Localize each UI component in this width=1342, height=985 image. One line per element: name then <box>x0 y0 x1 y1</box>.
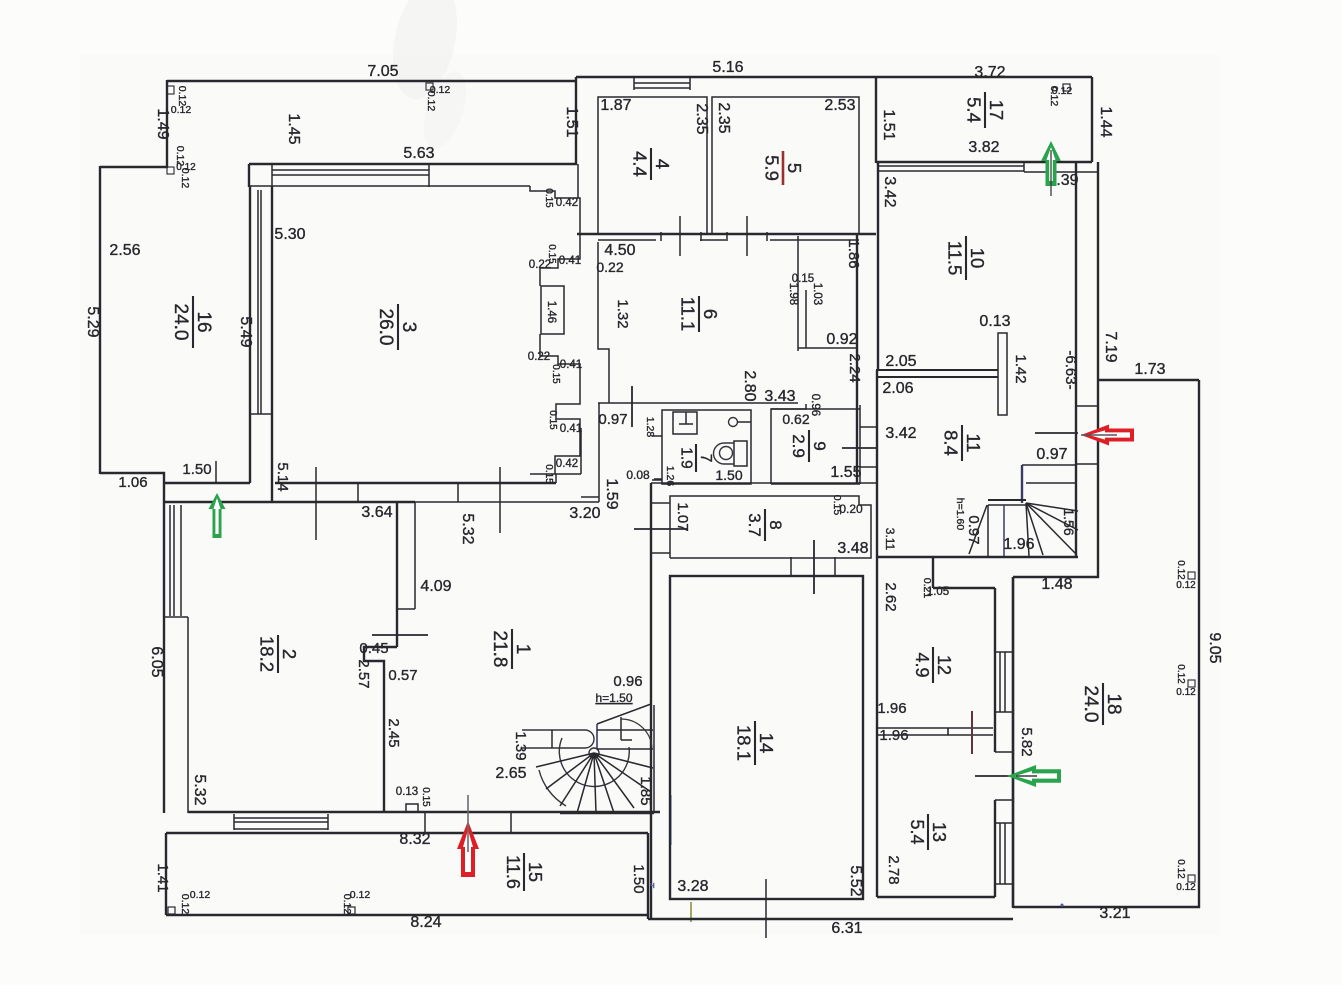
stair bar b <box>988 504 1026 506</box>
room label 3 <box>375 304 419 350</box>
svg-text:0.12: 0.12 <box>1175 664 1186 684</box>
svg-text:3.28: 3.28 <box>677 878 708 895</box>
stair tread 2 <box>1026 482 1076 484</box>
wall shaft inner x1076 <box>1075 162 1077 558</box>
door tick below room14 <box>765 879 767 938</box>
stair2 tread bottom <box>597 748 653 750</box>
svg-text:0.41: 0.41 <box>560 359 582 371</box>
stair2 inner arc <box>559 738 629 787</box>
window crossbar 2b <box>995 799 1013 801</box>
window jamb rooms45 r <box>689 77 691 90</box>
svg-text:5.4: 5.4 <box>907 819 927 844</box>
stair spoke 2 <box>1026 503 1043 555</box>
wall right of garage block x577 <box>575 77 577 165</box>
wall corridor bottom y483 <box>651 482 877 484</box>
wall top room18 area <box>1098 379 1199 381</box>
svg-text:0.22: 0.22 <box>596 259 623 275</box>
svg-text:0.12: 0.12 <box>1176 882 1196 893</box>
window crossbar 2a <box>995 751 1013 753</box>
wall rooms12/13 divider a <box>877 727 993 729</box>
shaft crossbar b <box>1076 463 1098 465</box>
svg-text:3.11: 3.11 <box>883 528 897 551</box>
room label 12 <box>912 647 954 683</box>
tick through green arrow rm <box>1016 775 1037 777</box>
sink tap b <box>679 423 693 425</box>
svg-text:1.42: 1.42 <box>1012 354 1029 383</box>
svg-text:0.22: 0.22 <box>528 351 550 363</box>
svg-text:5.4: 5.4 <box>963 97 984 123</box>
sink room7 <box>673 412 697 434</box>
svg-text:18.1: 18.1 <box>733 725 754 761</box>
svg-text:3.21: 3.21 <box>1099 905 1130 922</box>
svg-text:5.49: 5.49 <box>237 316 254 347</box>
wall right rooms1213 inner x995 upper <box>994 588 996 752</box>
svg-text:2.24: 2.24 <box>846 353 863 382</box>
corner square terrace mid <box>348 907 355 914</box>
window jamb room3 top left <box>271 164 273 187</box>
svg-text:9.05: 9.05 <box>1206 632 1223 663</box>
svg-text:1: 1 <box>512 644 533 655</box>
wall step to room1 top <box>530 473 581 475</box>
svg-text:21.8: 21.8 <box>489 631 510 668</box>
svg-text:17: 17 <box>986 100 1007 121</box>
svg-text:3.48: 3.48 <box>837 540 868 557</box>
corridor stub y479 <box>654 478 662 480</box>
window crossbar 3b <box>995 883 1013 885</box>
svg-text:2.56: 2.56 <box>109 242 140 259</box>
svg-text:5.32: 5.32 <box>459 513 476 544</box>
svg-text:1.98: 1.98 <box>787 283 799 305</box>
stair2 tread top <box>597 729 653 731</box>
room 5 walls <box>712 97 859 234</box>
wall connector y609 <box>397 608 415 610</box>
svg-text:0.12: 0.12 <box>171 104 192 116</box>
toilet bowl room7 <box>714 443 734 464</box>
svg-text:5: 5 <box>784 163 805 173</box>
svg-text:0.12: 0.12 <box>341 894 353 915</box>
svg-text:1.46: 1.46 <box>545 301 557 323</box>
window glazing rooms45 b <box>634 87 690 89</box>
wall bottom room9 <box>771 483 860 485</box>
svg-text:0.20: 0.20 <box>839 502 863 516</box>
svg-text:3.42: 3.42 <box>885 425 916 442</box>
wall connector x458 <box>457 483 459 502</box>
wall left room18 x1013 <box>1012 577 1014 908</box>
stair2 vertical <box>596 724 598 749</box>
room label 14 <box>733 721 777 765</box>
wall bottom rooms12 <box>188 811 660 813</box>
door stub room7 b <box>652 479 662 481</box>
chimney box room3 <box>541 286 564 334</box>
svg-text:0.12: 0.12 <box>176 162 196 173</box>
svg-text:0.13: 0.13 <box>396 786 418 798</box>
crossbar room9 a <box>860 426 877 428</box>
door tick room8 <box>813 540 815 594</box>
svg-text:0.08: 0.08 <box>626 468 650 482</box>
room 4 walls <box>598 97 707 234</box>
svg-text:0.12: 0.12 <box>179 894 191 915</box>
wall bottom room6 <box>598 402 798 404</box>
toilet tank room7 <box>734 441 747 466</box>
svg-text:9: 9 <box>810 441 829 450</box>
window glazing room10 top b <box>878 170 1024 172</box>
door tick rooms1213 <box>975 775 1016 777</box>
svg-text:5.82: 5.82 <box>1018 727 1035 756</box>
window room2 left c <box>180 505 182 616</box>
window glazing room3 top a <box>272 169 429 171</box>
window room2 bottom c <box>234 828 328 830</box>
stair spoke 4 <box>1026 503 1078 530</box>
door stub room7 a <box>652 435 662 437</box>
svg-text:5.32: 5.32 <box>191 774 208 805</box>
room label 10 <box>944 236 988 280</box>
door jamb rooms45 a <box>660 232 662 241</box>
svg-text:1.49: 1.49 <box>154 108 171 139</box>
svg-text:2.05: 2.05 <box>885 353 916 370</box>
svg-text:2.80: 2.80 <box>741 370 758 401</box>
svg-text:0.42: 0.42 <box>556 197 578 209</box>
wall terrace bottom <box>166 914 648 916</box>
svg-text:2.53: 2.53 <box>824 97 855 114</box>
corner sq re1 <box>1188 680 1195 687</box>
tick terrace b <box>510 812 512 833</box>
wall bottom rooms45 <box>577 233 876 235</box>
svg-text:h=1.60: h=1.60 <box>954 498 966 531</box>
wall inner room2 left x188 <box>187 617 189 813</box>
wall left upper x167 <box>166 80 168 168</box>
tick through red arrow b <box>467 795 469 852</box>
red arrow bottom <box>457 821 479 877</box>
stair2 landing pill <box>522 730 594 748</box>
wall top of room 3 <box>249 163 577 165</box>
wall room10/11 b <box>877 376 998 378</box>
room label 4 <box>629 148 673 180</box>
wall bottom rooms45 inner b <box>700 239 726 241</box>
wall left room11 x877 <box>876 370 878 557</box>
svg-text:10: 10 <box>967 248 988 269</box>
stair2 spoke 4 <box>577 753 594 813</box>
room label 6 <box>677 296 721 332</box>
wall bottom wing outer <box>648 918 1013 920</box>
stair2 spoke 3 <box>560 753 594 806</box>
svg-text:ч: ч <box>650 880 655 890</box>
door knob circle room7 <box>729 418 738 427</box>
svg-text:h=1.50: h=1.50 <box>595 691 632 705</box>
wall notched right of room3 upper <box>530 186 580 286</box>
svg-text:1.96: 1.96 <box>879 727 908 744</box>
door tick room4 <box>679 216 681 256</box>
window glazing room10 top a <box>878 165 1024 167</box>
wall inner top of room 3 <box>250 185 530 187</box>
room label 13 <box>907 814 949 850</box>
corridor crossbar y553 <box>651 552 670 554</box>
wall connector x358 <box>357 483 359 502</box>
door tick room13 <box>971 711 973 754</box>
svg-text:5.14: 5.14 <box>274 462 291 491</box>
room label 16 <box>170 296 214 348</box>
stair2 spoke 9 <box>594 753 653 768</box>
wall terrace left <box>165 833 167 915</box>
wall top of garage block <box>167 80 577 82</box>
svg-text:13: 13 <box>929 822 949 842</box>
window glazing room3 left b <box>260 190 262 414</box>
stair2 spoke 2 <box>546 753 594 789</box>
wall room10/11 a <box>876 369 998 371</box>
svg-text:0.15: 0.15 <box>420 787 431 807</box>
svg-text:2.35: 2.35 <box>715 102 732 133</box>
svg-text:12: 12 <box>934 655 954 675</box>
svg-text:3.64: 3.64 <box>361 504 392 521</box>
svg-text:1.56: 1.56 <box>1061 508 1077 535</box>
window room2 sill <box>164 616 188 618</box>
svg-text:18.2: 18.2 <box>256 636 277 672</box>
window rooms1213 glazing 3b <box>1004 823 1006 884</box>
svg-text:0.42: 0.42 <box>556 458 578 470</box>
svg-text:1.55: 1.55 <box>830 464 861 481</box>
window glazing room3 left a <box>257 190 259 414</box>
svg-text:1.9: 1.9 <box>677 447 694 469</box>
svg-text:1.39: 1.39 <box>512 731 529 760</box>
wall y502 room2 top <box>164 501 415 503</box>
svg-text:6.31: 6.31 <box>831 920 862 937</box>
svg-text:0.92: 0.92 <box>826 331 857 348</box>
stair spoke 3 <box>1026 503 1076 554</box>
window room2 left a <box>169 505 171 616</box>
corner sq t mid <box>426 83 433 90</box>
svg-text:1.73: 1.73 <box>1134 361 1165 378</box>
window room2 left b <box>173 505 175 616</box>
svg-text:24.0: 24.0 <box>170 304 191 341</box>
window crossbar 1b <box>995 711 1013 713</box>
svg-text:16: 16 <box>193 311 214 332</box>
svg-text:0.41: 0.41 <box>559 255 581 267</box>
svg-text:4.4: 4.4 <box>629 151 650 177</box>
room label 11 <box>940 425 984 461</box>
svg-text:6: 6 <box>700 309 721 319</box>
stair rail mid <box>1003 505 1005 556</box>
svg-text:11.5: 11.5 <box>944 241 965 276</box>
wall left outer x100 <box>99 166 101 474</box>
room label 7 <box>677 444 714 472</box>
svg-text:1.50: 1.50 <box>182 461 211 478</box>
svg-text:2.45: 2.45 <box>385 718 402 747</box>
window jamb room3 top right <box>428 164 430 187</box>
svg-text:24.0: 24.0 <box>1080 686 1101 723</box>
shaft crossbar a <box>1076 405 1098 407</box>
svg-text:1.51: 1.51 <box>563 106 580 137</box>
stair2 spoke 1 <box>536 753 594 767</box>
wall left room10 <box>877 162 879 371</box>
svg-text:1.03: 1.03 <box>811 283 823 305</box>
wall bottom of room 16 <box>100 472 165 474</box>
wall bottom rooms45 inner c <box>770 239 859 241</box>
room label 2 <box>256 635 300 673</box>
svg-text:1.50: 1.50 <box>715 467 742 483</box>
notch bottom wall <box>406 804 418 812</box>
stair2 spoke 8 <box>594 753 651 792</box>
svg-text:1.51: 1.51 <box>880 109 897 140</box>
tick yellow below room14 <box>690 902 692 922</box>
svg-text:0.15: 0.15 <box>543 188 554 208</box>
svg-text:1.86: 1.86 <box>845 239 862 268</box>
wall terrace top <box>166 832 648 834</box>
blue artifact b <box>1061 904 1064 907</box>
window jamb room10 top <box>1023 162 1025 172</box>
wall left of room 2 <box>163 472 165 813</box>
wall step x556 <box>555 474 557 483</box>
wall top room12 <box>933 587 995 589</box>
wall corner x578 <box>577 164 579 198</box>
door jamb room8 a <box>790 557 792 577</box>
svg-text:4.50: 4.50 <box>604 242 635 259</box>
svg-text:5.9: 5.9 <box>761 155 782 181</box>
svg-text:11.1: 11.1 <box>677 297 698 332</box>
wall x599 corridor <box>598 403 600 502</box>
corner square room17 <box>1063 84 1070 91</box>
wall right rooms1213 outer x1013 <box>1012 577 1014 907</box>
svg-text:0.97: 0.97 <box>1036 446 1067 463</box>
window glazing room3 top b <box>272 174 429 176</box>
wall right room17 <box>1091 77 1093 162</box>
stair2 spoke 6 <box>594 753 614 813</box>
window room2 bottom jamb r <box>327 814 329 830</box>
svg-text:5.63: 5.63 <box>403 145 434 162</box>
wall bottom room13 <box>877 896 995 898</box>
wall left rooms1213 x877 <box>876 557 878 897</box>
wall step room12 x933 <box>932 557 934 588</box>
sink tap a <box>685 412 687 424</box>
svg-text:0.12: 0.12 <box>1176 580 1196 591</box>
tick through green arrow tr <box>1050 150 1052 196</box>
svg-text:3.82: 3.82 <box>968 139 999 156</box>
svg-text:5.29: 5.29 <box>84 306 101 337</box>
wall top room17 <box>876 76 1092 78</box>
svg-text:1.28: 1.28 <box>644 417 656 438</box>
stair spoke 5 <box>1026 503 1078 511</box>
wall y483 main <box>275 482 556 484</box>
wall room3 left outer x250 <box>249 186 251 483</box>
room label 8 <box>745 509 785 541</box>
svg-text:1.45: 1.45 <box>285 113 302 144</box>
window rooms1213 glazing 3a <box>999 823 1001 884</box>
crossbar room9 b <box>860 466 877 468</box>
room 14 walls <box>670 576 863 899</box>
svg-text:0.12: 0.12 <box>1175 859 1186 879</box>
svg-text:-6.63-: -6.63- <box>1062 350 1079 389</box>
stair spoke 1 <box>1026 503 1029 556</box>
svg-text:2.62: 2.62 <box>882 582 899 611</box>
corner square terrace left <box>168 907 175 914</box>
window rooms1213 glazing 1b <box>1004 652 1006 712</box>
svg-text:0.15: 0.15 <box>543 464 554 484</box>
svg-text:4: 4 <box>652 159 673 169</box>
stair cut diagonal <box>969 505 987 554</box>
green arrow left <box>209 493 226 538</box>
stair2 bottom <box>560 812 654 814</box>
svg-text:0.12: 0.12 <box>1176 687 1196 698</box>
wall notched right of room3 lower <box>540 334 580 474</box>
wall right rooms45 x876 <box>875 77 877 163</box>
svg-text:11.6: 11.6 <box>503 855 523 889</box>
svg-text:8.4: 8.4 <box>940 430 961 456</box>
svg-text:7.19: 7.19 <box>1102 331 1119 362</box>
svg-text:7.05: 7.05 <box>367 63 398 80</box>
svg-text:2.9: 2.9 <box>789 434 808 458</box>
wall stub room6 x806 <box>805 290 807 348</box>
svg-text:1.48: 1.48 <box>1041 576 1072 593</box>
svg-text:3.72: 3.72 <box>974 64 1005 81</box>
svg-text:6.05: 6.05 <box>148 646 165 677</box>
svg-text:0.96: 0.96 <box>613 673 642 690</box>
svg-text:2.65: 2.65 <box>495 765 526 782</box>
svg-text:8.32: 8.32 <box>399 831 430 848</box>
svg-text:1.06: 1.06 <box>118 474 147 491</box>
room label 9 <box>789 430 829 462</box>
door tick room9 <box>842 447 877 449</box>
wall room2 right x397 <box>396 502 398 647</box>
svg-text:5.30: 5.30 <box>274 226 305 243</box>
svg-text:8: 8 <box>766 520 785 529</box>
svg-text:14: 14 <box>756 733 777 754</box>
svg-text:1.05: 1.05 <box>927 586 949 598</box>
red arrow right <box>1081 425 1134 446</box>
scan smudge <box>383 0 467 105</box>
svg-text:0.12: 0.12 <box>1048 86 1060 107</box>
svg-text:0.15: 0.15 <box>550 364 561 384</box>
svg-text:15: 15 <box>525 862 545 882</box>
window glazing rooms45 a <box>634 82 690 84</box>
stair2 door arc <box>621 719 652 748</box>
svg-text:0.97: 0.97 <box>965 515 982 544</box>
window jamb rooms45 l <box>633 77 635 90</box>
corner sq re2 <box>1188 875 1195 882</box>
wall shaft outer x1098 <box>1097 162 1099 578</box>
green arrow top right <box>1041 141 1061 186</box>
svg-text:8.24: 8.24 <box>410 914 441 931</box>
wall nook room6 <box>798 347 857 349</box>
stair rail left <box>987 505 989 557</box>
svg-text:0.12: 0.12 <box>190 889 211 901</box>
svg-text:7: 7 <box>697 454 714 463</box>
window room2 bottom jamb l <box>233 814 235 830</box>
tick terrace a <box>424 812 426 833</box>
wall top of room 16 <box>100 166 168 168</box>
stair2 diagonal <box>597 704 651 724</box>
wall y483 left <box>164 482 250 484</box>
svg-text:0.22: 0.22 <box>529 259 551 271</box>
svg-text:11: 11 <box>963 433 984 452</box>
svg-text:0.97: 0.97 <box>598 411 627 428</box>
svg-text:0.12: 0.12 <box>425 91 437 112</box>
svg-text:5.52: 5.52 <box>847 865 864 896</box>
room label 18 <box>1080 683 1124 725</box>
wall bottom stairs/room11 <box>877 556 1078 558</box>
wall right outer x1199 <box>1198 380 1200 908</box>
window sill room3 left <box>250 413 272 415</box>
svg-text:4.09: 4.09 <box>420 578 451 595</box>
svg-text:0.41: 0.41 <box>560 423 582 435</box>
svg-text:18: 18 <box>1103 693 1124 714</box>
door tick room11 <box>1035 432 1078 434</box>
svg-text:0.62: 0.62 <box>782 411 809 427</box>
door jamb rooms45 b <box>700 232 702 241</box>
wall corridor x651 <box>650 483 652 919</box>
wall terrace right x648 <box>647 833 649 919</box>
svg-text:5.16: 5.16 <box>712 59 743 76</box>
walls room 8 <box>670 496 871 558</box>
dim tick x500 <box>499 467 501 533</box>
wall right room9 x857 <box>856 234 858 484</box>
